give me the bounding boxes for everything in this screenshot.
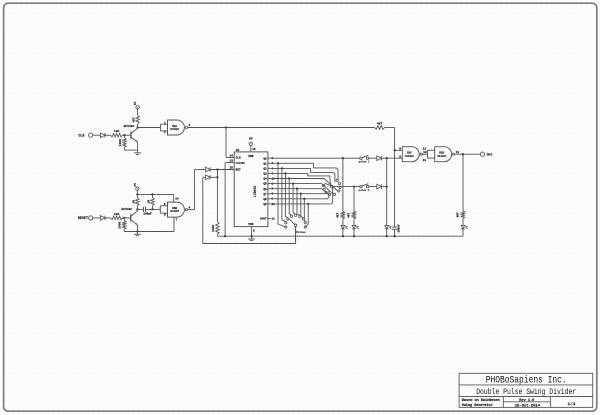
svg-text:CD4093: CD4093 — [170, 210, 180, 213]
svg-text:11: 11 — [456, 151, 460, 154]
svg-text:5V: 5V — [249, 138, 253, 141]
svg-text:CLK: CLK — [236, 157, 241, 160]
svg-text:Q3: Q3 — [263, 173, 267, 176]
svg-text:Double Pulse Swing Divider: Double Pulse Swing Divider — [476, 387, 576, 397]
svg-text:4K7: 4K7 — [348, 212, 351, 217]
svg-text:14: 14 — [175, 197, 179, 200]
svg-text:CD4017: CD4017 — [253, 186, 257, 198]
svg-text:13: 13 — [230, 160, 234, 163]
svg-text:10K: 10K — [114, 129, 120, 133]
svg-text:4K7: 4K7 — [457, 212, 460, 217]
svg-text:13: 13 — [423, 159, 427, 162]
svg-text:10K: 10K — [114, 212, 120, 216]
svg-text:CD4093: CD4093 — [170, 128, 180, 131]
svg-text:15-Oct-2014: 15-Oct-2014 — [515, 405, 540, 409]
svg-text:Q9: Q9 — [263, 203, 267, 206]
svg-text:BC549C: BC549C — [124, 125, 135, 128]
svg-text:VDD: VDD — [248, 155, 253, 158]
svg-text:4K7: 4K7 — [337, 212, 340, 217]
svg-text:VSS: VSS — [248, 223, 253, 226]
svg-text:Q0: Q0 — [263, 157, 267, 160]
svg-text:RESET: RESET — [78, 217, 88, 221]
svg-text:pulse 1: pulse 1 — [359, 161, 370, 164]
svg-text:Q7: Q7 — [263, 193, 267, 196]
svg-text:CD4093: CD4093 — [405, 155, 415, 158]
svg-text:CLK: CLK — [78, 134, 85, 138]
svg-text:Q8: Q8 — [263, 198, 267, 201]
svg-text:4K7: 4K7 — [377, 122, 383, 125]
svg-text:16: 16 — [252, 148, 256, 151]
svg-text:PHOBoSapiens Inc.: PHOBoSapiens Inc. — [486, 375, 567, 387]
svg-text:Rev 1.0: Rev 1.0 — [519, 399, 534, 403]
svg-text:COUT: COUT — [260, 218, 267, 221]
svg-text:Q5: Q5 — [263, 183, 267, 186]
svg-text:1M: 1M — [148, 200, 151, 204]
svg-text:CLKINH: CLKINH — [236, 162, 246, 165]
svg-text:Q2: Q2 — [263, 168, 267, 171]
svg-text:100K: 100K — [119, 221, 122, 228]
svg-text:1M: 1M — [133, 200, 136, 204]
svg-text:12: 12 — [423, 148, 427, 151]
svg-text:4K7: 4K7 — [133, 117, 136, 123]
svg-text:Out: Out — [487, 152, 493, 156]
svg-text:12: 12 — [272, 217, 276, 220]
svg-text:RST: RST — [236, 169, 241, 172]
svg-text:10: 10 — [423, 151, 427, 154]
svg-text:100K: 100K — [212, 225, 215, 232]
svg-text:U2: U2 — [236, 149, 240, 152]
svg-text:Pulses: Pulses — [296, 230, 306, 234]
svg-text:Q6: Q6 — [263, 188, 267, 191]
svg-text:BC549C: BC549C — [121, 208, 132, 211]
svg-text:15: 15 — [230, 167, 234, 170]
svg-text:5V: 5V — [134, 183, 137, 187]
svg-text:100pF: 100pF — [143, 213, 152, 216]
svg-text:CD4093: CD4093 — [437, 155, 447, 158]
svg-text:5V: 5V — [134, 101, 137, 105]
svg-text:100nF: 100nF — [397, 224, 400, 232]
svg-text:Q4: Q4 — [263, 178, 267, 181]
svg-text:1/1: 1/1 — [568, 402, 576, 407]
svg-text:Based on RuinWesen: Based on RuinWesen — [462, 398, 500, 402]
svg-text:pulse 2: pulse 2 — [359, 189, 370, 192]
svg-text:100K: 100K — [119, 139, 122, 146]
svg-text:14: 14 — [230, 155, 234, 158]
svg-text:Swing Generator: Swing Generator — [462, 403, 493, 407]
svg-text:Q1: Q1 — [263, 162, 267, 165]
